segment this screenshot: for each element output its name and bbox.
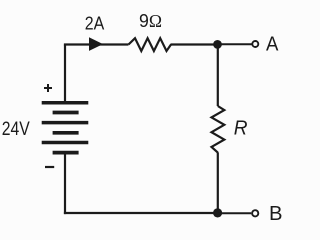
battery V1 24V (six plates)	[42, 103, 89, 153]
svg-text:2A: 2A	[85, 13, 105, 33]
resistor R (vertical zigzag)	[212, 106, 225, 153]
label 24V	[2, 118, 30, 140]
wire: top rail right segment	[171, 43, 219, 45]
battery + polarity mark	[44, 84, 52, 92]
wire: right vertical lower segment	[217, 152, 219, 213]
node: top junction dot	[213, 40, 222, 49]
wire: left vertical (battery + up to top rail)	[64, 45, 66, 102]
svg-text:R: R	[234, 118, 248, 140]
svg-text:24V: 24V	[2, 118, 30, 140]
label 9Ω	[139, 11, 162, 31]
wire: bottom rail	[64, 212, 218, 214]
wire: stub to terminal A	[218, 43, 252, 45]
wire: stub to terminal B	[218, 212, 252, 214]
resistor R1 9Ω (horizontal zigzag)	[129, 38, 172, 51]
svg-text:9Ω: 9Ω	[139, 11, 162, 31]
terminal A (open circle)	[252, 41, 258, 47]
label B	[269, 203, 283, 225]
node: bottom junction dot	[213, 208, 222, 217]
svg-text:B: B	[269, 203, 283, 224]
label 2A	[85, 13, 105, 33]
label A	[266, 34, 279, 56]
terminal B (open circle)	[252, 210, 258, 216]
wire: top rail left segment	[64, 43, 129, 45]
battery − polarity mark	[45, 166, 54, 168]
wire: left vertical lower (battery − down to bottom rail)	[64, 153, 66, 215]
label R	[234, 118, 248, 140]
svg-text:A: A	[266, 34, 279, 56]
wire: right vertical upper segment	[217, 45, 219, 107]
current arrow (2A direction)	[89, 37, 103, 51]
